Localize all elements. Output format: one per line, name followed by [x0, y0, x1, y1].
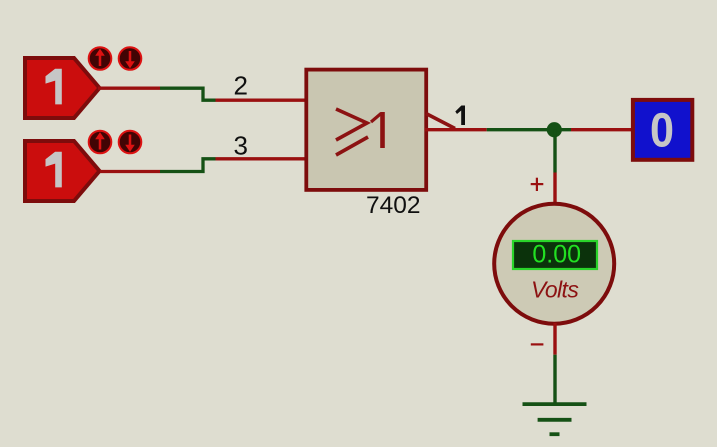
ground symbol [523, 404, 587, 434]
wire: voltmeter to ground [553, 323, 556, 404]
svg-text:7402: 7402 [366, 192, 421, 219]
svg-text:3: 3 [234, 130, 248, 160]
svg-text:0: 0 [650, 102, 674, 157]
voltmeter display [513, 241, 597, 270]
NOR gate U1 7402 body [306, 70, 426, 190]
voltmeter body [494, 204, 614, 324]
minus terminal label [531, 343, 544, 345]
logic input LOGICSTATE bottom (value 1) [25, 141, 100, 201]
wire: junction to logic probe [554, 128, 634, 131]
inverter wedge on gate output [426, 114, 455, 129]
svg-text:0.00: 0.00 [532, 241, 581, 269]
pin number 1 [455, 106, 465, 126]
down button of top input [119, 47, 142, 70]
wire: junction down to voltmeter [553, 130, 556, 204]
svg-text:Volts: Volts [531, 276, 579, 302]
wire: gate output to junction [425, 128, 554, 131]
logic input LOGICSTATE top (value 1) [25, 58, 100, 118]
up button of top input [89, 47, 112, 70]
logic probe (shows 0) [633, 100, 692, 160]
svg-text:2: 2 [234, 71, 248, 101]
plus terminal label [531, 178, 544, 191]
down button of bottom input [119, 131, 142, 154]
wire: top input to gate pin 2 [98, 88, 307, 100]
up button of bottom input [89, 131, 112, 154]
wire: bottom input to gate pin 3 [100, 159, 307, 172]
IEC &#8805;1 symbol [336, 109, 367, 140]
junction node [547, 122, 562, 137]
